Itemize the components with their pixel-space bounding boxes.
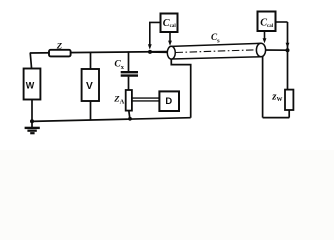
arrowhead cal1 left [148,44,152,49]
wire top bus [30,52,167,53]
wire inner conductor left (bus to cable) [150,51,171,53]
junction ZA / ground bus [128,117,132,121]
wire cal2 down tap [264,31,266,39]
svg-text:V: V [86,81,93,92]
svg-text:Z: Z [56,40,63,50]
wire left drop [30,53,31,69]
coax cable Cs top line [171,43,261,46]
source W [24,69,41,100]
svg-text:D: D [165,95,172,106]
wire V branch bottom [90,101,92,120]
wire right loop bottom [263,117,290,119]
wire cal2 corner to zW (right vertical) [287,22,289,90]
wire cal1 down tap [169,32,171,41]
paper background [0,0,334,150]
svg-text:W: W [26,80,35,90]
junction ground bus / W [30,119,34,123]
cable axis line [176,50,257,53]
wire zW to loop bottom [288,110,290,118]
arrowhead cal2 right [286,43,290,48]
ground bus wire [32,118,191,122]
wire capacitor branch top [128,52,130,71]
shield jog wire to ground bus [171,59,190,118]
calibration capacitor Ccal 1 [161,14,178,33]
wire W to ground bus [31,100,33,122]
wire cal1 left tap [150,22,161,45]
measuring impedance ZA [126,90,132,111]
capacitor Cx plates [121,71,138,73]
coax cable Cs bottom line [171,57,261,59]
junction top bus / cal1 [148,50,152,54]
arrowhead cal2 down [263,38,267,43]
resistor Z [49,50,71,57]
wire inner conductor right [261,49,288,51]
voltmeter V [82,69,99,101]
wire V branch top [90,52,92,69]
cable right end cap [256,43,265,57]
calibration capacitor Ccal 2 [258,12,276,32]
wire cal2 right tap [276,21,288,23]
twin lead ZA to D [132,97,160,99]
terminating impedance zW [285,90,293,110]
arrowhead cal1 down [168,41,172,46]
detector D [159,91,179,111]
wire capacitor to ZA [128,77,130,90]
wire ZA to ground bus [129,111,130,119]
cable left end cap [167,46,175,59]
junction cable / zW wire [286,48,290,52]
ground [25,121,40,133]
wire right sheath drop [262,56,264,117]
